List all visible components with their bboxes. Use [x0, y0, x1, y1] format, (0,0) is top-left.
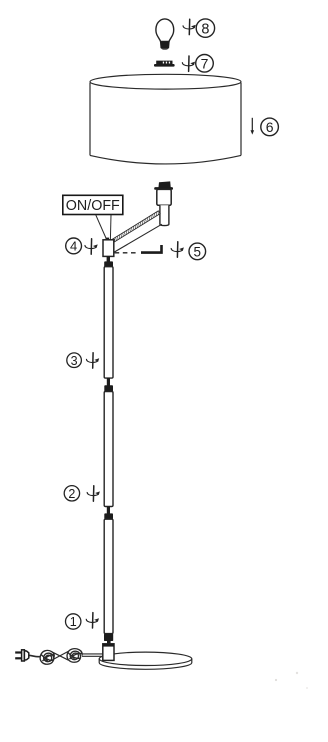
svg-text:5: 5 — [194, 244, 202, 259]
faint scan specks — [296, 672, 298, 674]
joint stem — [107, 507, 110, 515]
svg-text:6: 6 — [266, 119, 274, 135]
bulb (item 8) — [156, 19, 174, 50]
svg-text:4: 4 — [70, 239, 77, 254]
pole tube 3 (top segment, item 3) — [104, 267, 113, 378]
joint collar — [104, 513, 113, 519]
pole tube 2 (middle segment, item 2) — [104, 392, 113, 507]
callout circle 3 — [67, 353, 82, 368]
power cord — [15, 649, 103, 665]
bottom collar — [104, 634, 113, 641]
callout circle 4 — [66, 238, 82, 254]
callout circle 8 — [196, 19, 214, 37]
callout circle 1 — [66, 614, 81, 629]
twist symbol 1 — [86, 613, 99, 628]
leader lines — [96, 215, 107, 240]
callout circle 5 — [189, 243, 206, 260]
left tangle — [40, 650, 54, 664]
lamp shade (item 6) — [90, 74, 241, 164]
socket ring (item 7) — [154, 61, 175, 67]
callout circle 7 — [196, 55, 214, 73]
svg-text:3: 3 — [71, 354, 78, 368]
crossing between tangles — [53, 651, 69, 660]
swing arm tube (hatched) — [112, 211, 162, 253]
joint collar — [104, 385, 113, 391]
base socket cylinder — [103, 644, 114, 661]
callout circle 6 — [261, 118, 279, 136]
svg-text:ON/OFF: ON/OFF — [66, 198, 120, 214]
right tangle — [67, 649, 82, 663]
pole tube 1 (bottom segment, item 1) — [104, 519, 113, 633]
arrow for 6 — [251, 118, 255, 135]
twist symbol 7 — [182, 56, 195, 71]
twist symbol 8 — [183, 19, 196, 34]
svg-text:8: 8 — [201, 21, 209, 37]
swivel connector (item 4) — [103, 238, 114, 267]
svg-text:7: 7 — [201, 55, 209, 71]
allen key (item 5) — [141, 245, 162, 253]
bottom stem — [107, 641, 111, 646]
svg-text:1: 1 — [70, 615, 77, 629]
dashed line to allen key — [115, 252, 138, 254]
plug — [15, 651, 22, 653]
lamp socket on swing arm — [154, 181, 173, 225]
twist symbol 5 — [171, 242, 184, 257]
svg-text:2: 2 — [68, 487, 75, 501]
base plate — [99, 652, 192, 669]
cord to plug — [29, 655, 41, 656]
twist symbol 2 — [87, 486, 100, 501]
twist symbol 3 — [86, 353, 99, 368]
joint stem — [107, 378, 110, 386]
twist symbol 4 — [85, 239, 98, 254]
callout circle 2 — [64, 486, 79, 501]
ON/OFF label box — [63, 195, 123, 239]
